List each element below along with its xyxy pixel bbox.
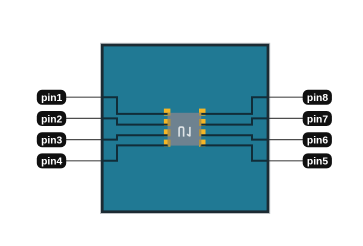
- pin label pin6: [303, 132, 332, 147]
- pin label pin2: [37, 111, 66, 126]
- leader line pin5: [266, 160, 303, 162]
- pad 5: [199, 140, 206, 147]
- pad 7 inner leg: [199, 119, 201, 126]
- pad 2 inner leg: [168, 119, 171, 126]
- pad 8 inner leg: [199, 113, 201, 116]
- trace pin8: [200, 97, 267, 114]
- svg-text:pin8: pin8: [307, 93, 328, 104]
- leader line pin1: [66, 96, 104, 98]
- pad 6: [199, 129, 206, 136]
- pad 7: [199, 119, 206, 126]
- pad 4: [164, 140, 171, 147]
- PCB board outline halo: [102, 45, 268, 212]
- pin label pin7: [303, 111, 332, 126]
- leader line pin2: [66, 117, 104, 119]
- leader line pin7: [266, 117, 303, 119]
- pad 1 (left, top): [164, 109, 171, 116]
- pin label pin8: [303, 90, 332, 105]
- leader line pin6: [266, 139, 303, 141]
- svg-text:pin1: pin1: [41, 93, 62, 104]
- pad 4 inner leg: [168, 140, 171, 146]
- trace pin1: [103, 97, 169, 114]
- svg-text:pin5: pin5: [307, 157, 328, 168]
- svg-text:pin7: pin7: [307, 114, 328, 125]
- U1 label text (vertically flipped "U1") : glyph U: [179, 127, 184, 137]
- pad 2: [164, 119, 171, 126]
- svg-text:pin4: pin4: [41, 157, 62, 168]
- trace pin2: [103, 118, 169, 124]
- pad 5 inner leg: [199, 140, 201, 146]
- pin label pin4: [37, 153, 66, 168]
- leader line pin4: [66, 160, 104, 162]
- pad 1 inner leg: [168, 113, 171, 116]
- svg-text:pin6: pin6: [307, 135, 328, 146]
- trace pin3: [103, 135, 169, 139]
- svg-text:pin2: pin2: [41, 114, 62, 125]
- pin label pin3: [37, 132, 66, 147]
- trace pin4: [103, 145, 169, 160]
- pin label pin5: [303, 153, 332, 168]
- leader line pin3: [66, 139, 104, 141]
- PCB board: [102, 45, 268, 212]
- svg-text:pin3: pin3: [41, 135, 62, 146]
- pad 8 (right, top): [199, 109, 206, 116]
- U1 label text : glyph 1 (flipped): [187, 127, 190, 136]
- trace pin6: [200, 135, 267, 139]
- leader line pin8: [266, 96, 303, 98]
- pad 3: [164, 129, 171, 136]
- IC U1 body: [168, 113, 202, 146]
- trace pin7: [200, 118, 267, 124]
- trace pin5: [200, 145, 267, 160]
- pin label pin1: [37, 90, 66, 105]
- pad 6 inner leg: [199, 129, 201, 136]
- pad 3 inner leg: [168, 129, 171, 136]
